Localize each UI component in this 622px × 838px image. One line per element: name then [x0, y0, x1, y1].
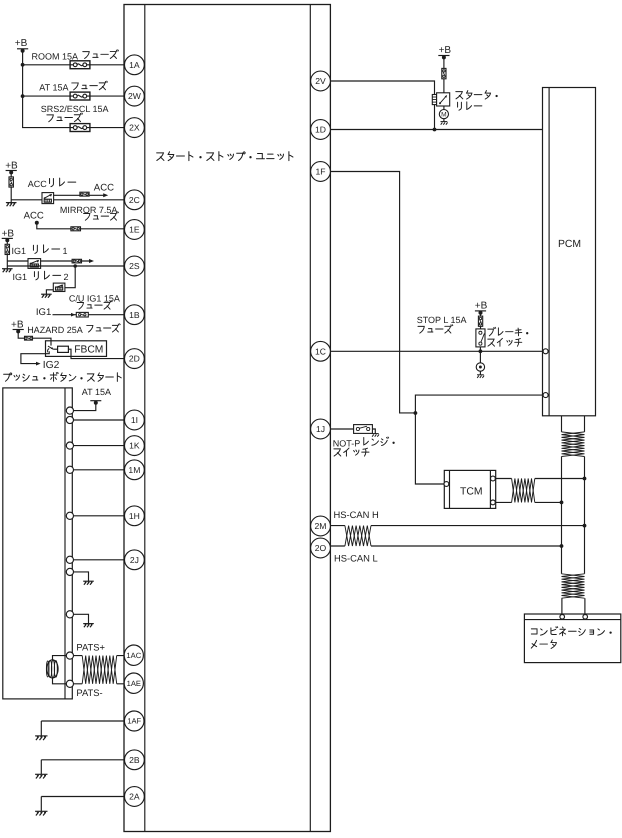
ground (NOT-P)	[372, 434, 379, 437]
junction dot 1A	[21, 63, 25, 67]
fuse HAZARD 25A	[25, 336, 33, 340]
svg-text:2D: 2D	[129, 354, 140, 364]
svg-text:1I: 1I	[131, 415, 138, 425]
wire 1F line	[330, 172, 415, 413]
svg-text:1AF: 1AF	[127, 717, 141, 726]
antenna coil L1	[46, 660, 58, 678]
svg-text:ACC: ACC	[24, 210, 44, 221]
wire pin to 1I	[74, 419, 125, 421]
label TCM	[460, 487, 483, 498]
svg-text:2: 2	[64, 272, 69, 282]
svg-text:1AC: 1AC	[126, 651, 141, 660]
label: start-stop unit (katakana)	[157, 152, 293, 161]
svg-text:IG1: IG1	[36, 307, 51, 318]
svg-text:1F: 1F	[315, 167, 325, 177]
connector pin 1F	[311, 162, 331, 182]
pin PCM 1C	[543, 349, 548, 354]
label PATS+	[76, 641, 105, 652]
label HS-CAN H	[334, 509, 379, 520]
connector pin 1I	[124, 410, 144, 430]
wire brake switch to 1C line	[479, 347, 481, 351]
connector pin 2S	[124, 256, 144, 276]
ground (2A)	[35, 811, 47, 815]
wire TCM CAN L	[495, 501, 561, 503]
connector pin 1J	[311, 419, 331, 439]
junction dot 2S branch	[73, 264, 77, 268]
svg-text:STOP L 15A: STOP L 15A	[417, 315, 467, 325]
pin (PATS+)	[66, 652, 73, 659]
connector pin 1AF	[124, 711, 144, 731]
wire 2M CAN H	[330, 525, 584, 527]
module PCM box	[543, 88, 596, 416]
starter motor M1	[439, 110, 448, 119]
wire 2V line	[330, 81, 434, 130]
connector pin 1C	[311, 341, 331, 361]
svg-text:1H: 1H	[129, 511, 140, 521]
junction dot brake/1C	[479, 349, 483, 353]
junction dot 2M-H/trunk	[583, 524, 587, 528]
node +B (hazard)	[11, 319, 24, 333]
label push-button start	[4, 372, 122, 381]
wire CAN trunk stub (PCM)	[562, 416, 585, 432]
svg-text:+B: +B	[5, 161, 18, 172]
relay IG1 relay 2	[53, 283, 65, 291]
wire ACC to 1E	[37, 223, 125, 229]
starter relay coil	[432, 95, 436, 105]
connector pin 2W	[124, 86, 144, 106]
fuse (vertical, IG1 relay feed)	[5, 244, 9, 254]
connector pin 2M	[311, 516, 331, 536]
junction dot TCM-L/trunk	[560, 501, 564, 505]
wire AT15A to pin	[74, 403, 96, 411]
svg-text:HAZARD 25A: HAZARD 25A	[27, 325, 83, 335]
connector pin 1M	[124, 460, 144, 480]
svg-text:2A: 2A	[129, 792, 140, 802]
svg-text:1E: 1E	[129, 225, 140, 235]
pin TCM L	[491, 500, 496, 505]
wire IG1 relay1 output	[41, 259, 94, 263]
module combination meter box	[524, 614, 620, 663]
wire CAN trunk (middle)	[562, 457, 585, 574]
TCM twisted pair	[512, 479, 535, 503]
svg-text:1J: 1J	[316, 424, 325, 434]
FBCM internal resistor R1	[53, 346, 68, 352]
pin TCM H	[491, 476, 496, 481]
wire 2O CAN L	[330, 545, 561, 547]
fuse AT 15A	[70, 92, 90, 100]
svg-text:2O: 2O	[315, 543, 327, 553]
svg-text:PATS+: PATS+	[76, 641, 105, 652]
wire CAN trunk to meter	[562, 598, 585, 614]
wire IG1 to 1B	[53, 313, 125, 317]
label STOP L 15A fuse	[417, 315, 467, 333]
pin meter H	[583, 615, 588, 620]
relay ACC (contact+coil)	[42, 193, 54, 204]
CAN trunk twisted pair (upper)	[562, 432, 585, 457]
svg-text:2W: 2W	[128, 91, 142, 101]
fuse (vertical, starter relay)	[442, 68, 446, 78]
wire pin to 1M	[74, 469, 125, 471]
svg-text:1D: 1D	[315, 125, 326, 135]
connector pin 1E	[124, 220, 144, 240]
svg-text:PATS-: PATS-	[76, 687, 102, 698]
pin (1K)	[66, 442, 73, 449]
svg-text:1A: 1A	[129, 60, 140, 70]
svg-text:PCM: PCM	[558, 239, 581, 250]
wire IG1 relay2 to ground	[46, 290, 53, 294]
connector pin 1K	[124, 436, 144, 456]
label starter relay	[456, 91, 498, 111]
svg-text:IG2: IG2	[43, 360, 60, 371]
wire PATS+ to 1AC	[74, 655, 125, 657]
svg-text:IG1: IG1	[12, 246, 27, 256]
pin (1I)	[66, 416, 73, 423]
module FBCM box	[46, 341, 107, 357]
pin TCM left	[444, 482, 449, 487]
svg-text:FBCM: FBCM	[74, 344, 103, 355]
CAN trunk twisted pair (lower)	[562, 574, 585, 598]
wire 1J to NOT-P switch	[330, 428, 353, 430]
wire branch to TCM	[415, 413, 444, 484]
wire to 2W	[23, 95, 125, 97]
node ACC (mirror feed)	[24, 210, 44, 224]
module TCM box	[444, 470, 495, 508]
connector pin 1AC	[124, 645, 143, 665]
svg-text:1B: 1B	[129, 310, 140, 320]
wire to 1A	[23, 64, 125, 66]
push-button start box	[3, 388, 73, 699]
svg-text:+B: +B	[2, 228, 15, 239]
label ROOM 15A fuse	[32, 50, 119, 62]
wire PATS- to 1AE	[74, 683, 125, 685]
svg-text:2C: 2C	[129, 195, 140, 205]
wire 2C line	[11, 199, 124, 201]
pin PCM 1D	[543, 127, 548, 132]
label NOT-P range switch	[333, 437, 395, 456]
fuse (vertical, ACC relay feed)	[9, 177, 13, 187]
pin (2J)	[66, 556, 73, 563]
wire to 2X	[70, 127, 124, 129]
fuse SRS2/ESCL 15A	[70, 124, 90, 132]
label PATS-	[76, 687, 102, 698]
pin PCM (395)	[543, 393, 548, 398]
svg-text:ACC: ACC	[28, 179, 48, 189]
pin (1H)	[66, 512, 73, 519]
ground (push start 1)	[83, 581, 94, 585]
wire 2B to ground	[41, 760, 124, 775]
wire starter relay to motor	[443, 106, 445, 110]
junction dot 2W	[21, 94, 25, 98]
label IG2	[43, 360, 60, 371]
connector pin 1A	[124, 55, 144, 75]
wire pin to 2J	[74, 559, 125, 561]
start-stop unit U1 box	[124, 5, 330, 832]
label ACC relay	[28, 178, 76, 189]
node IG1 (feed)	[36, 307, 51, 318]
wire ACC relay output	[54, 193, 109, 197]
svg-text:1AE: 1AE	[127, 679, 141, 688]
ground (push start 2)	[83, 624, 94, 628]
junction dot TCM-H/trunk	[583, 477, 587, 481]
connector pin 1D	[311, 120, 331, 140]
node +B (room bus)	[15, 38, 28, 53]
junction dot 1F branch	[414, 411, 418, 415]
label brake switch	[488, 327, 529, 346]
label IG1 relay 2	[13, 271, 69, 282]
wire FBCM to IG2	[21, 351, 49, 365]
svg-text:2B: 2B	[129, 755, 140, 765]
wire pin to 1H	[74, 515, 125, 517]
relay starter (contact box)	[437, 93, 450, 106]
label FBCM	[74, 344, 103, 355]
label HAZARD 25A fuse	[27, 324, 120, 336]
connector pin 1B	[124, 305, 144, 325]
fuse C/U IG1 15A	[76, 312, 88, 317]
svg-text:+B: +B	[15, 38, 28, 49]
wire +B to FBCM	[18, 331, 51, 340]
svg-text:SRS2/ESCL 15A: SRS2/ESCL 15A	[41, 104, 109, 114]
ground (2B)	[35, 774, 47, 778]
label MIRROR 7.5A fuse	[60, 205, 118, 220]
wire 1AF to ground	[41, 721, 124, 736]
wire 2S line	[7, 265, 124, 267]
ground (1AF)	[35, 736, 47, 740]
wire +B bus to fuses	[23, 51, 71, 128]
svg-text:+B: +B	[439, 45, 452, 56]
junction dot 2O-L/trunk	[560, 544, 564, 548]
ground (ACC relay)	[6, 203, 17, 207]
PATS twisted pair	[82, 656, 117, 684]
svg-text:+B: +B	[475, 301, 488, 312]
connector (IG1 output)	[72, 259, 81, 263]
wire branch to PCM	[415, 395, 543, 413]
wire 2A to ground	[41, 797, 124, 812]
svg-text:TCM: TCM	[460, 487, 483, 498]
label C/U IG1 15A fuse	[69, 293, 120, 309]
svg-text:ACC: ACC	[94, 183, 114, 194]
svg-text:AT 15A: AT 15A	[82, 387, 111, 397]
fuse MIRROR 7.5A	[71, 227, 81, 231]
connector pin 2B	[124, 750, 144, 770]
svg-text:2V: 2V	[315, 76, 326, 86]
wire pin to 1K	[74, 445, 125, 447]
connector pin 1AE	[124, 673, 143, 693]
wire pin to ground 1	[74, 572, 89, 581]
switch brake (box)	[476, 329, 485, 347]
svg-text:2M: 2M	[315, 521, 327, 531]
node +B (ACC relay)	[5, 161, 18, 175]
connector pin 2C	[124, 190, 144, 210]
node AT 15A feed	[82, 387, 111, 405]
fuse ROOM 15A	[70, 61, 90, 69]
connector pin 2X	[124, 118, 144, 138]
ground (starter motor)	[441, 122, 448, 125]
ground (IG1 relay 1)	[2, 269, 13, 273]
connector pin 1H	[124, 506, 144, 526]
node +B (IG1 relay)	[2, 228, 15, 242]
pin (1M)	[66, 466, 73, 473]
wire lamp to ground	[479, 371, 481, 375]
wire +B to brake switch	[480, 313, 482, 329]
label SRS2/ESCL 15A fuse	[41, 104, 109, 122]
svg-text:1K: 1K	[129, 441, 140, 451]
svg-text:NOT-P: NOT-P	[333, 438, 361, 448]
svg-text:ROOM 15A: ROOM 15A	[32, 51, 79, 61]
svg-text:AT 15A: AT 15A	[39, 83, 68, 93]
wire 1D line	[330, 129, 543, 131]
switch NOT-P range	[354, 425, 373, 434]
svg-text:1M: 1M	[128, 465, 140, 475]
connector pin 2D	[124, 349, 144, 369]
svg-text:HS-CAN H: HS-CAN H	[334, 509, 379, 520]
fuse STOP L 15A (vertical)	[478, 316, 482, 326]
svg-text:2S: 2S	[129, 261, 140, 271]
wire pin to ground 2	[74, 614, 89, 623]
wire motor to ground	[443, 119, 445, 122]
pin (AT15A)	[66, 407, 73, 414]
node +B (starter relay)	[438, 45, 451, 59]
label combination meter	[531, 627, 611, 649]
wire NOT-P to ground	[372, 429, 375, 434]
label HS-CAN L	[334, 552, 378, 563]
connector (ACC output)	[80, 192, 89, 196]
stop lamp	[476, 363, 484, 371]
label ACC (output)	[94, 183, 114, 194]
svg-text:IG1: IG1	[13, 272, 28, 282]
label AT 15A fuse	[39, 81, 107, 93]
junction dot starter/1D	[433, 128, 437, 132]
wire +B to ACC coil	[10, 172, 12, 202]
wire 1C line	[330, 350, 543, 352]
connector pin 2A	[124, 787, 144, 807]
connector pin 2V	[311, 71, 331, 91]
node +B (stop lamp)	[475, 301, 488, 315]
wire +B to starter relay	[443, 57, 445, 92]
pin (gnd2)	[66, 611, 73, 618]
label IG1 relay 1	[12, 245, 68, 256]
wire TCM CAN H	[495, 478, 584, 480]
svg-text:M: M	[441, 112, 447, 119]
svg-text:1: 1	[63, 246, 68, 256]
wire 1C to stop lamp	[479, 351, 481, 363]
connector pin 2O	[311, 538, 331, 558]
svg-text:+B: +B	[11, 319, 24, 330]
ground (IG1 relay 2)	[41, 294, 52, 298]
svg-text:2J: 2J	[130, 555, 139, 565]
pin (gnd1)	[66, 568, 73, 575]
wire +B to IG1 relay	[6, 240, 8, 268]
ground (stop lamp)	[477, 375, 484, 378]
svg-text:HS-CAN L: HS-CAN L	[334, 552, 378, 563]
wire IG1 relay1 contact feed	[7, 260, 28, 262]
wire FBCM out to 2D	[68, 349, 124, 358]
connector pin 2J	[124, 550, 144, 570]
svg-text:1C: 1C	[315, 346, 326, 356]
pin meter L	[560, 615, 565, 620]
wire coil to PATS pins	[53, 656, 67, 684]
wire branch to IG1 relay 2	[65, 266, 75, 288]
relay IG1 relay 1	[28, 259, 41, 269]
pin (PATS-)	[66, 680, 73, 687]
svg-text:2X: 2X	[129, 123, 140, 133]
label PCM	[558, 239, 581, 250]
HS-CAN twisted pair	[345, 526, 371, 546]
FBCM internal switch Q1	[48, 341, 54, 353]
